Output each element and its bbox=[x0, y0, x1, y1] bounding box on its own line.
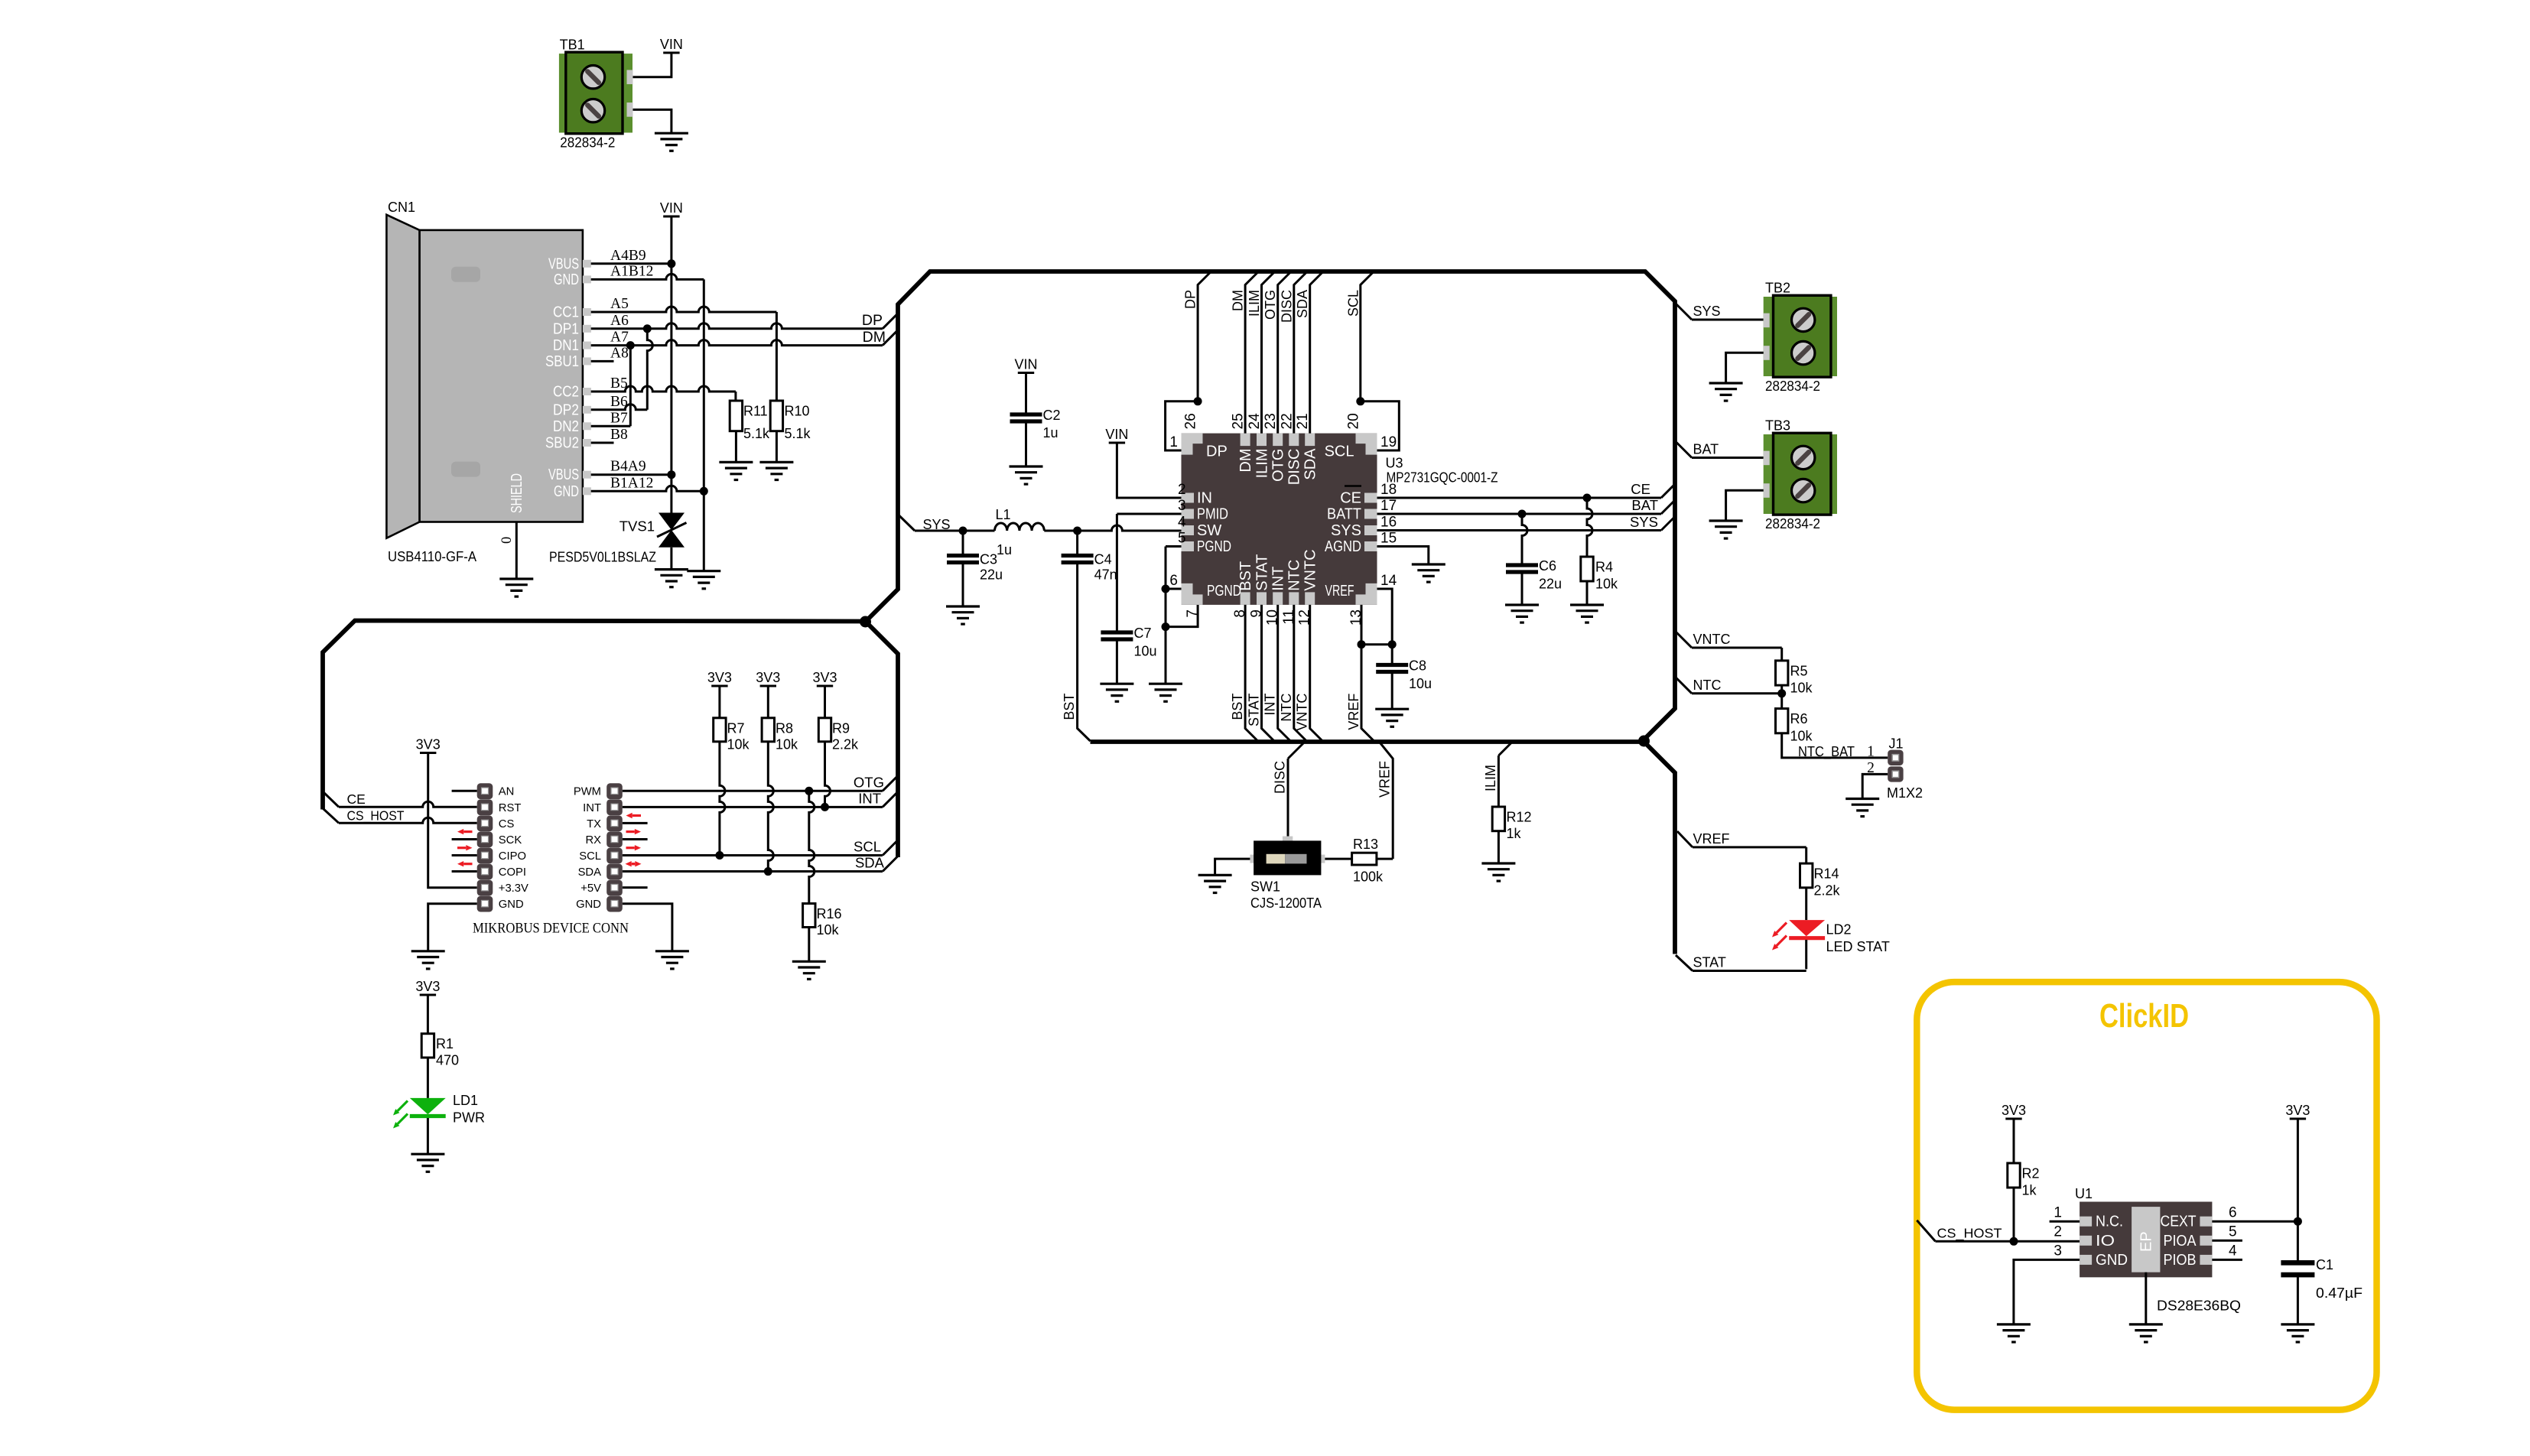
arrow COPI in bbox=[463, 863, 472, 865]
wire DM net bbox=[591, 340, 883, 346]
wire TB1 pin2 to ground bbox=[633, 109, 672, 133]
wire R9 to INT bbox=[825, 742, 831, 808]
svg-text:R9: R9 bbox=[832, 720, 850, 736]
ground under C2 bbox=[1010, 466, 1043, 484]
svg-text:1: 1 bbox=[1867, 744, 1875, 760]
svg-text:ILIM: ILIM bbox=[1254, 449, 1270, 479]
wire AGND pin15 to ground bbox=[1377, 547, 1429, 565]
pin CN1 VBUS (A4B9) bbox=[583, 260, 591, 268]
svg-text:CE: CE bbox=[347, 791, 366, 807]
ground at U1 EP bbox=[2129, 1324, 2163, 1342]
node GND junction B1A12 bbox=[700, 487, 708, 496]
wire DISC net to top bus bbox=[1294, 271, 1308, 434]
ground under C6 bbox=[1505, 605, 1539, 622]
svg-text:R16: R16 bbox=[817, 906, 842, 921]
svg-text:SYS: SYS bbox=[1630, 514, 1658, 530]
svg-text:TVS1: TVS1 bbox=[619, 518, 655, 535]
wire DISC to SW1 bbox=[1288, 742, 1305, 759]
node SCL bracket junction bbox=[1356, 397, 1364, 405]
ground under R11 bbox=[719, 462, 753, 479]
pin U1 1 N.C. bbox=[2080, 1217, 2092, 1227]
wire VIN to C2 bbox=[1025, 373, 1027, 413]
svg-text:OTG: OTG bbox=[854, 775, 884, 791]
svg-text:DN1: DN1 bbox=[553, 336, 579, 354]
svg-text:L1: L1 bbox=[996, 507, 1011, 522]
svg-text:15: 15 bbox=[1380, 531, 1397, 547]
svg-text:R5: R5 bbox=[1790, 663, 1808, 678]
svg-text:+5V: +5V bbox=[580, 882, 601, 895]
wire R14 to LD2 bbox=[1805, 888, 1807, 920]
svg-text:TB3: TB3 bbox=[1765, 418, 1790, 434]
svg-text:100k: 100k bbox=[1353, 869, 1384, 885]
wire DM net to top bus bbox=[1245, 271, 1259, 434]
wire CS_HOST into ClickID bbox=[1917, 1220, 1935, 1242]
svg-text:N.C.: N.C. bbox=[2096, 1214, 2123, 1230]
svg-text:PGND: PGND bbox=[1197, 538, 1231, 555]
wire U1 pin6 CEXT to C1 bbox=[2212, 1220, 2297, 1223]
svg-text:BATT: BATT bbox=[1327, 506, 1361, 523]
capacitor C8 10u bbox=[1391, 645, 1393, 663]
wire GND net vertical bbox=[703, 279, 705, 570]
pin U3 9 STAT bbox=[1257, 592, 1267, 605]
ground under C8 bbox=[1375, 709, 1409, 726]
ground under C1 bbox=[2281, 1324, 2314, 1342]
wire PMID to C7 bbox=[1117, 513, 1181, 515]
capacitor C6 22u bbox=[1506, 565, 1538, 572]
svg-text:25: 25 bbox=[1231, 413, 1247, 429]
wire STAT net to bottom bus bbox=[1262, 605, 1276, 742]
svg-text:+3.3V: +3.3V bbox=[499, 882, 528, 895]
resistor R4 10k bbox=[1581, 557, 1593, 581]
svg-text:USB4110-GF-A: USB4110-GF-A bbox=[388, 549, 476, 564]
wire SCL line bbox=[623, 854, 883, 856]
svg-text:SYS: SYS bbox=[1693, 304, 1721, 319]
wire R16 to ground bbox=[808, 928, 810, 962]
wire U1 pin1 stub bbox=[2050, 1220, 2080, 1223]
svg-text:10k: 10k bbox=[776, 736, 798, 752]
svg-text:GND: GND bbox=[499, 899, 524, 911]
svg-text:TX: TX bbox=[587, 818, 601, 830]
svg-text:PWR: PWR bbox=[453, 1110, 485, 1126]
svg-text:DM: DM bbox=[863, 329, 886, 346]
svg-text:1: 1 bbox=[1169, 434, 1178, 450]
wire R10 to ground bbox=[776, 431, 778, 463]
svg-text:DM: DM bbox=[1231, 290, 1246, 311]
TVS diode TVS1 PESD5V0L1BSLAZ bbox=[659, 513, 685, 531]
svg-text:PESD5V0L1BSLAZ: PESD5V0L1BSLAZ bbox=[549, 550, 656, 565]
svg-text:BAT: BAT bbox=[1693, 442, 1719, 457]
wire SDA net to top bus bbox=[1310, 271, 1324, 434]
wire U1 pin5 stub bbox=[2212, 1240, 2242, 1242]
svg-text:6: 6 bbox=[2229, 1205, 2237, 1221]
svg-text:EP: EP bbox=[2138, 1231, 2155, 1252]
svg-text:3V3: 3V3 bbox=[2002, 1103, 2026, 1118]
svg-text:3V3: 3V3 bbox=[2285, 1103, 2310, 1118]
svg-text:R12: R12 bbox=[1507, 810, 1532, 825]
svg-text:VREF: VREF bbox=[1377, 761, 1393, 798]
wire C4 to BST bus bbox=[1078, 564, 1091, 741]
svg-text:A7: A7 bbox=[610, 330, 629, 346]
svg-text:CS: CS bbox=[499, 818, 515, 830]
svg-text:CS_HOST: CS_HOST bbox=[347, 808, 405, 824]
wire U1 pin4 stub bbox=[2212, 1259, 2242, 1261]
svg-text:R7: R7 bbox=[727, 720, 745, 736]
svg-text:20: 20 bbox=[1345, 413, 1361, 429]
wire R12 to ground bbox=[1498, 831, 1500, 863]
svg-text:VBUS: VBUS bbox=[548, 466, 579, 483]
svg-text:C3: C3 bbox=[980, 552, 997, 567]
capacitor C7 10u bbox=[1101, 632, 1133, 639]
svg-text:DP: DP bbox=[862, 312, 883, 329]
pin U3 18 CE bbox=[1364, 493, 1377, 503]
svg-text:5.1k: 5.1k bbox=[785, 426, 811, 441]
wire TB2 pin2 to ground bbox=[1726, 353, 1764, 383]
node R2-IO junction bbox=[2010, 1237, 2018, 1246]
svg-text:A5: A5 bbox=[610, 296, 629, 312]
pin CN1 DN2 (B7) bbox=[583, 422, 591, 430]
wire BAT to TB3 bbox=[1675, 441, 1692, 458]
wire pin19 bracket to SCL net bbox=[1361, 401, 1400, 450]
wire TVS1 to ground bbox=[670, 548, 672, 570]
node R9-INT junction bbox=[821, 803, 829, 811]
wire R6 to J1 pin1 bbox=[1782, 733, 1888, 758]
svg-text:CS_HOST: CS_HOST bbox=[1937, 1225, 2002, 1241]
pin CN1 DN1 (A7) bbox=[583, 342, 591, 349]
wire C2 to ground bbox=[1025, 424, 1027, 467]
wire ILIM to R12 bbox=[1498, 742, 1512, 756]
pin CN1 CC2 (B5) bbox=[583, 388, 591, 395]
pin mikrobus SCK bbox=[477, 831, 493, 847]
svg-text:3V3: 3V3 bbox=[756, 670, 780, 685]
svg-text:SW1: SW1 bbox=[1250, 879, 1280, 895]
svg-text:U1: U1 bbox=[2075, 1186, 2093, 1201]
svg-text:IN: IN bbox=[1197, 490, 1212, 507]
ground under R12 bbox=[1481, 863, 1515, 881]
svg-text:SBU2: SBU2 bbox=[545, 434, 579, 452]
LED LD2 red bbox=[1789, 920, 1825, 936]
svg-text:282834-2: 282834-2 bbox=[1765, 379, 1820, 394]
wire CC1 A5 to R10 bbox=[591, 307, 777, 312]
svg-text:DISC: DISC bbox=[1279, 290, 1294, 323]
wire SCK stub bbox=[452, 838, 477, 840]
svg-text:A4B9: A4B9 bbox=[610, 248, 646, 264]
node DM-DN2 junction bbox=[626, 341, 635, 349]
ground at J1 bbox=[1845, 799, 1879, 817]
ground at AGND bbox=[1412, 564, 1445, 582]
inductor L1 1u bbox=[995, 523, 1045, 531]
pin mikrobus +3.3V bbox=[477, 880, 493, 896]
node NTC junction bbox=[1777, 689, 1786, 697]
wire SBU1 stub bbox=[591, 360, 614, 362]
svg-text:1: 1 bbox=[2054, 1205, 2062, 1221]
node R16-OTG junction bbox=[805, 787, 813, 795]
svg-text:SHIELD: SHIELD bbox=[508, 473, 525, 513]
wire DN2 B7 bbox=[591, 425, 631, 427]
wire U1 pin3 GND bbox=[2014, 1259, 2080, 1324]
node DP-DP2 junction bbox=[643, 324, 652, 333]
ground at TB2 bbox=[1709, 383, 1743, 401]
svg-text:17: 17 bbox=[1380, 498, 1397, 514]
wire PWM-OTG line bbox=[623, 790, 883, 792]
connector CN1 USB4110-GF-A body bbox=[386, 215, 419, 538]
node CEXT junction bbox=[2294, 1217, 2302, 1226]
wire R1 to LD1 bbox=[427, 1058, 429, 1098]
pin U3 pad 13/14 corner bbox=[1356, 583, 1377, 605]
svg-text:A1B12: A1B12 bbox=[610, 263, 653, 279]
resistor R14 2.2k bbox=[1800, 863, 1813, 888]
svg-text:B7: B7 bbox=[610, 410, 628, 426]
svg-text:OTG: OTG bbox=[1270, 449, 1287, 482]
svg-text:C6: C6 bbox=[1539, 558, 1556, 574]
wire SHIELD to ground bbox=[515, 522, 518, 580]
svg-text:GND: GND bbox=[554, 271, 579, 288]
pin CN1 DP1 (A6) bbox=[583, 325, 591, 333]
pin U3 pad 1/26 corner bbox=[1182, 434, 1203, 455]
svg-text:COPI: COPI bbox=[499, 866, 526, 879]
wire CE label line to RST bbox=[324, 793, 339, 807]
wire DN2 vertical bbox=[629, 346, 632, 427]
pin U3 15 AGND bbox=[1364, 541, 1377, 551]
svg-text:GND: GND bbox=[2096, 1252, 2128, 1269]
wire DP2 vertical bbox=[647, 329, 652, 410]
wire R5 to NTC node bbox=[1780, 685, 1783, 709]
wire DP net to top bus bbox=[1198, 271, 1211, 401]
wire L1 to SW pin bbox=[1044, 525, 1181, 531]
node R4 junction on CE bbox=[1583, 494, 1592, 502]
svg-text:NTC: NTC bbox=[1279, 694, 1294, 722]
svg-text:5: 5 bbox=[2229, 1224, 2237, 1240]
svg-text:B1A12: B1A12 bbox=[610, 475, 653, 491]
pin U3 3 PMID bbox=[1182, 509, 1195, 519]
wire C1 to ground bbox=[2297, 1277, 2299, 1324]
pin U1 6 CEXT bbox=[2200, 1217, 2212, 1227]
arrow SDA bidir bbox=[632, 863, 635, 865]
ground at SW1 bbox=[1198, 875, 1232, 892]
wire SW1 left to ground bbox=[1215, 859, 1250, 875]
svg-text:SCL: SCL bbox=[1325, 444, 1354, 460]
wire VNTC to R5 bbox=[1675, 631, 1692, 648]
switch SW1 CJS-1200TA bbox=[1283, 837, 1293, 841]
svg-text:3V3: 3V3 bbox=[416, 737, 441, 752]
svg-text:R10: R10 bbox=[785, 404, 810, 419]
resistor R16 10k bbox=[803, 904, 815, 928]
wire C7 to ground bbox=[1116, 642, 1118, 684]
svg-text:R8: R8 bbox=[776, 720, 793, 736]
ground at TB1 bbox=[655, 133, 688, 151]
svg-text:26: 26 bbox=[1183, 413, 1199, 429]
node bus Y-junction right bbox=[1638, 736, 1650, 747]
wire R13 to VREF bus bbox=[1377, 858, 1393, 860]
ground under LD1 bbox=[411, 1154, 444, 1172]
wire R4 to ground bbox=[1586, 581, 1589, 605]
svg-text:2: 2 bbox=[1178, 482, 1186, 498]
svg-text:PMID: PMID bbox=[1197, 506, 1228, 523]
svg-text:ILIM: ILIM bbox=[1483, 765, 1498, 791]
ground at TB3 bbox=[1709, 521, 1743, 538]
wire CE pin18 to bus bbox=[1377, 497, 1662, 499]
resistor R12 1k bbox=[1492, 807, 1504, 831]
svg-text:R6: R6 bbox=[1790, 711, 1808, 726]
wire OTG net to top bus bbox=[1278, 271, 1292, 434]
wire BATT pin17 to bus bbox=[1377, 513, 1662, 515]
svg-text:PIOA: PIOA bbox=[2164, 1233, 2197, 1250]
svg-text:SCL: SCL bbox=[579, 850, 601, 863]
svg-text:16: 16 bbox=[1380, 515, 1397, 531]
svg-text:2.2k: 2.2k bbox=[832, 736, 859, 752]
resistor R6 10k bbox=[1776, 709, 1788, 733]
wire VBUS B4A9 bbox=[591, 473, 672, 476]
wire SYS from bus to IC bbox=[899, 515, 915, 531]
svg-text:R4: R4 bbox=[1595, 560, 1613, 575]
wire C3 to ground bbox=[962, 564, 964, 606]
pin U3 24 ILIM bbox=[1257, 434, 1267, 447]
wire +5V stub bbox=[623, 886, 648, 889]
node VREF junction pin14 bbox=[1388, 640, 1397, 648]
wire VREF to R14 bbox=[1677, 831, 1693, 847]
svg-text:3: 3 bbox=[1178, 498, 1186, 514]
svg-text:10u: 10u bbox=[1134, 644, 1157, 659]
svg-text:GND: GND bbox=[554, 483, 579, 500]
svg-text:IO: IO bbox=[2096, 1233, 2115, 1250]
wire CC2 B5 to R11 bbox=[591, 386, 736, 392]
pin mikrobus SDA bbox=[606, 864, 623, 880]
svg-text:MIKROBUS DEVICE CONN: MIKROBUS DEVICE CONN bbox=[473, 921, 629, 937]
svg-text:1k: 1k bbox=[1507, 826, 1522, 841]
resistor R8 10k bbox=[762, 718, 774, 742]
svg-text:VREF: VREF bbox=[1325, 583, 1354, 600]
ground under R16 bbox=[792, 961, 826, 979]
svg-text:VIN: VIN bbox=[660, 37, 683, 52]
svg-text:DS28E36BQ: DS28E36BQ bbox=[2157, 1298, 2241, 1314]
svg-text:10u: 10u bbox=[1409, 676, 1432, 691]
wire right GND pin to ground bbox=[623, 904, 672, 951]
svg-text:10k: 10k bbox=[727, 736, 750, 752]
svg-text:SDA: SDA bbox=[1302, 448, 1319, 480]
svg-text:10k: 10k bbox=[817, 922, 840, 938]
ground at SHIELD bbox=[499, 579, 533, 596]
svg-text:VBUS: VBUS bbox=[548, 255, 579, 272]
wire R2 to IO node bbox=[2013, 1188, 2015, 1241]
svg-text:DP: DP bbox=[1206, 444, 1228, 460]
pin mikrobus AN bbox=[477, 783, 493, 799]
wire J1 pin2 to ground bbox=[1862, 774, 1888, 798]
svg-text:3V3: 3V3 bbox=[812, 670, 837, 685]
svg-text:INT: INT bbox=[1270, 567, 1287, 591]
pin mikrobus CIPO bbox=[477, 848, 493, 864]
svg-text:OTG: OTG bbox=[1263, 290, 1278, 320]
svg-text:SBU1: SBU1 bbox=[545, 353, 579, 370]
svg-text:CIPO: CIPO bbox=[499, 850, 526, 863]
wire STAT from bus bbox=[1676, 955, 1693, 971]
svg-text:TB2: TB2 bbox=[1765, 281, 1790, 296]
pin CN1 SBU1 (A8) bbox=[583, 357, 591, 365]
svg-text:STAT: STAT bbox=[1693, 955, 1726, 970]
svg-text:2: 2 bbox=[2054, 1224, 2062, 1240]
svg-text:LD1: LD1 bbox=[453, 1093, 478, 1108]
pin mikrobus TX bbox=[606, 815, 623, 831]
svg-text:SCL: SCL bbox=[1345, 290, 1361, 317]
svg-text:R13: R13 bbox=[1353, 837, 1378, 852]
wire TX stub bbox=[623, 822, 648, 824]
node VREF junction pin13 bbox=[1358, 640, 1366, 648]
svg-text:SW: SW bbox=[1197, 522, 1221, 539]
svg-text:VIN: VIN bbox=[660, 200, 683, 216]
svg-text:282834-2: 282834-2 bbox=[560, 135, 615, 150]
wire thick bottom bus bbox=[1091, 739, 1644, 744]
wire INT net to bottom bus bbox=[1278, 605, 1292, 742]
svg-text:CC1: CC1 bbox=[553, 304, 579, 321]
svg-text:10k: 10k bbox=[1790, 728, 1813, 743]
wire pin1 bracket to DP net bbox=[1166, 401, 1198, 450]
wire R16 to OTG line bbox=[809, 791, 815, 903]
ground at right header bbox=[655, 951, 689, 969]
arrow TX out bbox=[626, 830, 635, 833]
svg-text:10k: 10k bbox=[1595, 577, 1618, 592]
svg-text:LED STAT: LED STAT bbox=[1826, 939, 1890, 954]
node C4 junction bbox=[1073, 527, 1081, 535]
svg-text:STAT: STAT bbox=[1247, 694, 1262, 726]
pin U3 4 SW bbox=[1182, 525, 1195, 535]
ground under TVS1 bbox=[655, 570, 688, 587]
svg-text:47n: 47n bbox=[1094, 567, 1117, 583]
svg-text:R14: R14 bbox=[1814, 866, 1839, 882]
svg-text:0: 0 bbox=[499, 537, 515, 544]
svg-text:5.1k: 5.1k bbox=[743, 426, 770, 441]
pin U1 2 IO bbox=[2080, 1236, 2092, 1246]
LED LD1 green PWR bbox=[410, 1098, 446, 1114]
wire R8 to SDA bbox=[768, 742, 773, 872]
svg-text:MP2731GQC-0001-Z: MP2731GQC-0001-Z bbox=[1387, 470, 1498, 486]
node VBUS2 junction bbox=[667, 470, 675, 479]
wire VIN to IN pin bbox=[1117, 443, 1181, 498]
wire GND B1A12 bbox=[591, 486, 704, 491]
svg-text:AGND: AGND bbox=[1325, 538, 1361, 555]
svg-text:PIOB: PIOB bbox=[2164, 1252, 2197, 1269]
ground under R10 bbox=[759, 462, 793, 479]
pin mikrobus RX bbox=[606, 831, 623, 847]
svg-text:4: 4 bbox=[2229, 1243, 2237, 1259]
pin mikrobus GND bbox=[606, 896, 623, 912]
ground GND net bbox=[687, 571, 720, 589]
wire DP2 B6 bbox=[591, 405, 648, 410]
svg-text:282834-2: 282834-2 bbox=[1765, 516, 1820, 531]
svg-text:A6: A6 bbox=[610, 313, 629, 329]
pin mikrobus COPI bbox=[477, 864, 493, 880]
wire CIPO stub bbox=[452, 854, 477, 856]
ClickID outline box bbox=[1917, 982, 2376, 1410]
IC U3 MP2731GQC-0001-Z body bbox=[1182, 434, 1377, 605]
pin U1 4 PIOB bbox=[2200, 1255, 2212, 1265]
wire CS_HOST label line to CS bbox=[323, 808, 339, 823]
pin CN1 DP2 (B6) bbox=[583, 406, 591, 414]
capacitor C2 1u bbox=[1010, 414, 1042, 421]
svg-text:SDA: SDA bbox=[855, 855, 885, 871]
capacitor C3 22u bbox=[962, 531, 964, 554]
wire SW1 right to R13 bbox=[1325, 858, 1351, 860]
pin CN1 VBUS (B4A9) bbox=[583, 471, 591, 479]
wire R11 to ground bbox=[735, 431, 737, 463]
wire RX stub bbox=[623, 838, 648, 840]
svg-text:DISC: DISC bbox=[1273, 761, 1288, 794]
svg-text:INT: INT bbox=[583, 802, 601, 814]
wire C6 vertical bbox=[1522, 514, 1527, 564]
svg-text:14: 14 bbox=[1380, 573, 1397, 589]
resistor R10 5.1k bbox=[770, 401, 782, 431]
svg-text:RX: RX bbox=[585, 834, 601, 847]
svg-text:10k: 10k bbox=[1790, 681, 1813, 696]
wire GND A1B12 bbox=[591, 274, 704, 279]
pin U3 pad 6/7 corner bbox=[1182, 583, 1203, 605]
